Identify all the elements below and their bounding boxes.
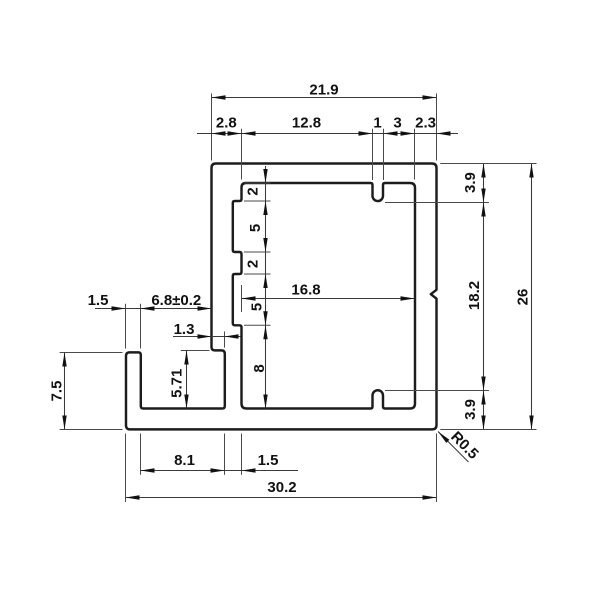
svg-text:5: 5: [247, 224, 264, 232]
dimension 1.5 and 6.8±0.2: [88, 292, 212, 311]
ext 8.1 and 1.5 shared x=224.5: [224, 434, 226, 475]
svg-text:2: 2: [245, 260, 262, 268]
dimension 30.2: [126, 479, 437, 500]
svg-text:5.71: 5.71: [169, 369, 186, 398]
ext 21.9 and 2.3 right at x=436.5: [436, 94, 438, 161]
ext 21.9 and 2.8 left at x=211.5: [211, 94, 213, 161]
dimension column 3.9 / 18.2 / 3.9: [462, 164, 486, 430]
dimension column 2 5 2 5 8: [245, 166, 268, 409]
svg-text:8: 8: [251, 364, 268, 372]
ext inner-left wall x=241.5: [241, 129, 243, 180]
svg-text:3: 3: [393, 114, 401, 131]
svg-text:26: 26: [515, 289, 532, 306]
ext notch y=201: [244, 200, 271, 202]
svg-text:30.2: 30.2: [267, 479, 296, 496]
ext 1.5 and 6.8 shared x=140.5: [140, 304, 142, 349]
dimension 1.3: [173, 321, 241, 339]
svg-text:1.5: 1.5: [258, 452, 279, 469]
svg-text:3.9: 3.9: [462, 172, 479, 193]
ext slot-bottom y=202.5: [385, 202, 489, 204]
ext 8.1 left x=140.5: [140, 434, 142, 475]
dimension 26: [515, 164, 534, 430]
svg-text:2.3: 2.3: [415, 114, 436, 131]
svg-text:2: 2: [245, 187, 262, 195]
svg-text:12.8: 12.8: [292, 114, 321, 131]
ext ceiling y=183: [245, 182, 271, 184]
dimension 16.8: [242, 282, 415, 301]
ext notch y=274: [244, 273, 271, 275]
svg-text:6.8±0.2: 6.8±0.2: [151, 292, 201, 309]
dimension 21.9 top: [212, 82, 437, 100]
svg-text:1.5: 1.5: [88, 292, 109, 309]
ext 7.5 top y=352.5: [60, 352, 123, 354]
svg-text:3.9: 3.9: [462, 399, 479, 420]
ext notch y=325.3: [244, 324, 271, 326]
ext 1.5 bottom right x=241.5: [241, 434, 243, 475]
dimension 7.5: [48, 353, 66, 430]
ext lip top y=350.5: [181, 350, 210, 352]
ext bottom-right y=429.5: [440, 429, 536, 431]
ext slot right x=383.5: [383, 129, 385, 180]
ext bottom-slot-top y=390.5: [385, 390, 489, 392]
svg-text:7.5: 7.5: [48, 381, 65, 402]
svg-text:16.8: 16.8: [291, 282, 320, 299]
ext 16.8 left x=241.5: [241, 285, 243, 312]
ext inner-right wall x=414.5: [414, 129, 416, 180]
ext notch y=252: [244, 251, 271, 253]
ext 7.5 bottom y=429.5: [60, 429, 123, 431]
dimension 8.1 and 1.5 bottom: [141, 452, 299, 473]
dimension row 2.8 / 12.8 / 1 / 3 / 2.3: [197, 114, 458, 135]
profile outer outline: [126, 164, 437, 430]
radius callout R0.5: [438, 428, 482, 462]
ext 1.3 right x=224.5: [224, 332, 226, 348]
svg-text:1: 1: [373, 114, 381, 131]
ext 30.2 right x=436.5: [436, 434, 438, 503]
ext 30.2 left x=125.5: [125, 434, 127, 503]
ext slot left x=372.5: [372, 129, 374, 180]
dimension 5.71: [169, 351, 189, 409]
ext 1.5 left x=125.5: [125, 304, 127, 349]
svg-text:2.8: 2.8: [216, 114, 237, 131]
ext top-right y=163.5: [440, 163, 536, 165]
profile inner cavity: [233, 183, 415, 409]
svg-text:1.3: 1.3: [174, 321, 195, 338]
svg-text:5: 5: [249, 303, 266, 311]
svg-text:21.9: 21.9: [309, 82, 338, 99]
svg-text:8.1: 8.1: [174, 452, 195, 469]
svg-text:18.2: 18.2: [466, 281, 483, 310]
